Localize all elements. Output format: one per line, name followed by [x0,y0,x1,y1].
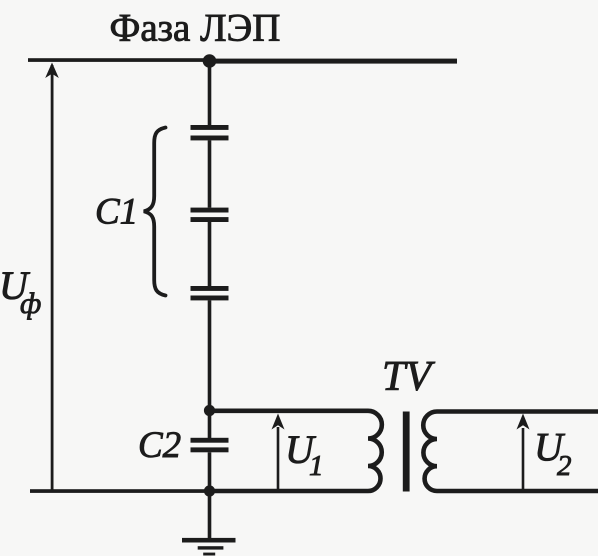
node: bottom (grounded node) [204,485,215,496]
wire: from divider tap node down to C2 [208,411,212,439]
svg-text:2: 2 [557,450,572,482]
svg-text:TV: TV [382,354,435,400]
dimension line for Uф (left vertical with arrow) [51,65,54,491]
capacitor C1c (bottom unit of C1 stack) [191,286,229,300]
capacitor C1a (top unit of C1 stack) [191,125,229,140]
arrow U1 [272,414,285,492]
brace grouping C1 stack [144,128,166,296]
wire: stub from bottom node to ground [208,491,212,539]
label U2 [534,425,572,483]
transformer TV core [403,412,410,492]
transformer TV secondary winding with loop wires to right edge [423,412,598,492]
wire: from C1c down to divider tap node [208,300,212,410]
wire: phase line left segment [28,58,210,62]
transformer TV primary winding with connecting loop wires [210,411,382,491]
wire: phase line right segment [210,59,457,64]
svg-text:C2: C2 [138,425,181,466]
svg-text:C1: C1 [95,192,138,233]
label U1 [285,427,324,482]
wire: between C1b and C1c [208,222,212,286]
node: divider tap (top of U1 loop) [204,405,215,416]
arrow U2 [517,414,530,492]
svg-text:Фаза ЛЭП: Фаза ЛЭП [110,7,281,50]
wire: bottom horizontal line (left of node) [30,489,210,493]
ground [182,538,236,556]
wire: main vertical from phase line to C1a [208,60,212,127]
wire: between C1a and C1b [208,140,212,207]
label Uф [0,263,41,320]
svg-text:1: 1 [309,450,324,482]
capacitor C2 [191,438,229,453]
node: phase tap junction [203,54,217,68]
svg-text:ф: ф [20,287,41,320]
capacitor C1b (middle unit of C1 stack) [191,208,229,222]
wire: from C2 down to bottom node [208,452,212,491]
arrowhead of Uф dimension line [45,63,59,79]
